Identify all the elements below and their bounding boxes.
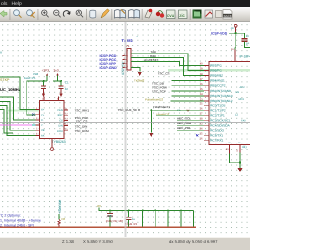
svg-text:+Sense: +Sense bbox=[57, 199, 62, 214]
U2 pin names left bbox=[41, 109, 45, 138]
svg-text:24: 24 bbox=[200, 128, 203, 131]
svg-text:TYB0263: TYB0263 bbox=[52, 140, 66, 144]
resistor R sense bbox=[58, 220, 60, 228]
wire W3 to U2 pin5 bbox=[0, 101, 36, 130]
pink wire to U2 pin4 bbox=[0, 124, 32, 126]
blue mark on U2 pin2 wire bbox=[32, 114, 34, 116]
cursor crosshair vertical overlay bbox=[124, 22, 126, 237]
svg-text:1uuF P5: 1uuF P5 bbox=[24, 76, 36, 80]
capacitor CL bbox=[107, 214, 113, 216]
capacitor C13 bbox=[242, 39, 248, 42]
svg-text:RC1/T1/P2: RC1/T1/P2 bbox=[210, 108, 226, 112]
junction VSS bbox=[239, 162, 241, 164]
svg-text:MC2: MC2 bbox=[239, 98, 245, 101]
wire below C13 bbox=[245, 42, 251, 48]
svg-text:CS: CS bbox=[59, 119, 63, 122]
wire ADC_SCL bbox=[177, 119, 204, 121]
capacitor C11 bbox=[58, 86, 63, 94]
svg-text:UC_10MHz: UC_10MHz bbox=[0, 87, 21, 92]
junction bbox=[60, 80, 62, 82]
wire +Sense stub bbox=[58, 214, 60, 220]
no-connect mark RC6 bbox=[196, 134, 198, 136]
wire TSC_DB to RB3 bbox=[172, 85, 204, 87]
wire P1 TxD bbox=[131, 54, 204, 71]
junction dots bottom bbox=[109, 210, 182, 212]
svg-text:4n: 4n bbox=[65, 87, 69, 91]
svg-text:STKP: STKP bbox=[0, 78, 10, 82]
svg-text:DIN: DIN bbox=[58, 125, 63, 128]
P1 pin numbers bbox=[124, 53, 126, 68]
U1 pin numbers RB bbox=[200, 63, 203, 102]
ground VSS bbox=[238, 168, 243, 172]
U1 pin names RC bbox=[210, 103, 231, 142]
C2 stubs bbox=[128, 210, 130, 226]
wire VSS gnd net bbox=[230, 153, 241, 169]
svg-text:BACK: BACK bbox=[224, 14, 232, 18]
wire TSC_SCP to RB1 bbox=[172, 95, 204, 97]
U2 pin names right bbox=[57, 109, 63, 133]
svg-text:FA0: FA0 bbox=[241, 119, 246, 122]
svg-text:33: 33 bbox=[200, 98, 203, 101]
svg-text:PulseIbumD2: PulseIbumD2 bbox=[145, 97, 163, 101]
U1 pin names RB bbox=[210, 63, 232, 103]
svg-text:M1: M1 bbox=[236, 91, 240, 94]
connector P1 body bbox=[127, 49, 131, 71]
CL stubs bbox=[109, 210, 111, 226]
wire RC2 row bbox=[156, 114, 204, 116]
svg-text:250R OR 180: 250R OR 180 bbox=[106, 219, 124, 223]
svg-text:26: 26 bbox=[200, 138, 203, 141]
wire ADC_SDA bbox=[177, 124, 204, 126]
U1 left pin stubs RB bbox=[204, 65, 209, 101]
svg-text:RB5/KB2: RB5/KB2 bbox=[210, 74, 223, 78]
U1 VDD top pin bbox=[231, 48, 235, 61]
U2 pin numbers bbox=[36, 98, 68, 136]
wire P1 gnd bbox=[131, 68, 140, 72]
junction RC1 bbox=[150, 109, 152, 111]
svg-text:RC5/SDO: RC5/SDO bbox=[210, 128, 224, 132]
junction bbox=[43, 80, 45, 82]
svg-text:X 5.850 Y 3.050: X 5.850 Y 3.050 bbox=[83, 239, 114, 244]
svg-text:C1: C1 bbox=[65, 81, 69, 85]
svg-text:HeaterD2: HeaterD2 bbox=[156, 112, 169, 116]
U1 right area pin name fragments bbox=[235, 86, 246, 122]
power symbol VDD bbox=[234, 24, 237, 33]
svg-text:16: 16 bbox=[200, 108, 203, 111]
ground arrow under C10 bbox=[42, 94, 46, 97]
svg-text:15: 15 bbox=[200, 103, 203, 106]
IC U2 TSC2046 body bbox=[40, 100, 64, 138]
svg-text:dx 5.850 dy 5.050 d 6.997: dx 5.850 dy 5.050 d 6.997 bbox=[169, 239, 218, 244]
svg-text:1u: 1u bbox=[132, 217, 136, 221]
U1 pin numbers RC bbox=[200, 103, 203, 141]
svg-text:BSY: BSY bbox=[58, 114, 63, 117]
wire ICSP-VDD net bbox=[229, 33, 245, 48]
svg-text:RB2/INT2/AN8: RB2/INT2/AN8 bbox=[210, 89, 231, 93]
svg-text:DOU: DOU bbox=[57, 130, 63, 133]
svg-text:RB7/PG: RB7/PG bbox=[210, 63, 222, 67]
svg-text:X-: X- bbox=[41, 119, 44, 122]
U2 left pin stubs bbox=[36, 110, 40, 136]
ground arrow under C11 bbox=[59, 94, 63, 97]
cursor crosshair vertical (under) bbox=[124, 22, 126, 237]
ground P1 bbox=[138, 72, 142, 76]
svg-text:17: 17 bbox=[200, 113, 203, 116]
svg-text:Y-: Y- bbox=[41, 124, 43, 127]
svg-text:ols Help: ols Help bbox=[1, 1, 22, 7]
no-connect mark pin4 bbox=[32, 124, 36, 126]
svg-text:ICSP-GND: ICSP-GND bbox=[100, 66, 118, 70]
svg-text:1n: 1n bbox=[246, 34, 250, 38]
svg-text:18: 18 bbox=[200, 118, 203, 121]
U2 bottom pin with open end bbox=[51, 139, 54, 151]
wire P1 uC-RESET bbox=[131, 61, 204, 65]
wire W5 bbox=[0, 110, 13, 133]
svg-text:25: 25 bbox=[200, 133, 203, 136]
svg-text:TSC_SCP: TSC_SCP bbox=[152, 90, 166, 94]
canvas background bbox=[0, 22, 250, 237]
svg-text:34: 34 bbox=[200, 93, 203, 96]
wire TSC_CS to RB4 bbox=[172, 80, 204, 82]
svg-text:TxD/PulseTx: TxD/PulseTx bbox=[153, 105, 171, 109]
svg-text:TSC_DOU: TSC_DOU bbox=[75, 129, 89, 133]
svg-text:RC4/SDI/SDA: RC4/SDI/SDA bbox=[210, 123, 230, 127]
U1 bottom pins VSS bbox=[230, 145, 241, 154]
svg-text:STUB /P2: STUB /P2 bbox=[125, 222, 138, 226]
svg-text:ʻC 2 Options:: ʻC 2 Options: bbox=[0, 214, 21, 218]
svg-text:41): 41) bbox=[242, 145, 247, 149]
svg-text:RB1/INT1/AN10: RB1/INT1/AN10 bbox=[210, 94, 232, 98]
svg-text:RB6/PG: RB6/PG bbox=[210, 68, 222, 72]
svg-text:40: 40 bbox=[200, 63, 203, 66]
svg-text:uC-RESET: uC-RESET bbox=[144, 58, 159, 62]
svg-text:PEN: PEN bbox=[57, 109, 62, 112]
svg-text:TSC_IRH1: TSC_IRH1 bbox=[75, 108, 90, 112]
svg-text:+3P3: +3P3 bbox=[42, 69, 50, 73]
svg-text:1P: 1P bbox=[246, 42, 250, 46]
wire W4 to U2 pin6 bbox=[0, 106, 36, 136]
capacitor C10 bbox=[41, 86, 46, 94]
wire ADC_PB1 bbox=[177, 129, 204, 131]
svg-text:RC3/SCK/SCL: RC3/SCK/SCL bbox=[210, 118, 231, 122]
svg-text:AC2: AC2 bbox=[240, 86, 246, 89]
wire bottom bus bbox=[99, 208, 193, 211]
junction ICSP-VDD bbox=[235, 32, 237, 34]
svg-text:TSC_DUX_SE R: TSC_DUX_SE R bbox=[118, 108, 142, 112]
wire P1 RxD bbox=[131, 58, 204, 76]
toolbar bbox=[0, 7, 250, 22]
power +3V3 right bbox=[54, 69, 59, 76]
svg-text:C⁋L: C⁋L bbox=[108, 214, 114, 218]
svg-text:ADC_PB1: ADC_PB1 bbox=[177, 126, 191, 130]
svg-text:ICSP-VDD: ICSP-VDD bbox=[211, 32, 228, 36]
comment text block bbox=[0, 214, 41, 228]
svg-text:X+: X+ bbox=[41, 109, 45, 112]
svg-text:3v3: 3v3 bbox=[54, 69, 59, 73]
net highlight band row RB6 bbox=[168, 69, 250, 71]
wire power to caps bbox=[27, 76, 61, 115]
cursor crosshair horizontal overlay bbox=[0, 122, 250, 123]
svg-text:36: 36 bbox=[200, 83, 203, 86]
U2 right pin stubs bbox=[64, 110, 68, 131]
svg-text:VB: VB bbox=[41, 129, 45, 132]
svg-text:39: 39 bbox=[200, 68, 203, 71]
menu bar bbox=[0, 0, 250, 7]
capacitor C2 bbox=[126, 217, 132, 219]
svg-text:35: 35 bbox=[200, 88, 203, 91]
power +3V3 left bbox=[42, 69, 50, 76]
svg-text:cvu: cvu bbox=[167, 13, 175, 18]
net highlight band U2 pin1 bbox=[8, 109, 39, 111]
svg-text:TxStat2: TxStat2 bbox=[134, 78, 145, 82]
svg-text:AX: AX bbox=[41, 134, 45, 137]
svg-text:RC6/TX1: RC6/TX1 bbox=[210, 133, 223, 137]
svg-text:Z 1.38: Z 1.38 bbox=[62, 239, 75, 244]
wire PulseIbumD2 to RB0 bbox=[171, 100, 204, 102]
wire to VDD pin bbox=[234, 48, 237, 50]
svg-text:IP-18F455: IP-18F455 bbox=[240, 55, 251, 59]
status bar bbox=[0, 237, 250, 250]
svg-text:TSC_CS: TSC_CS bbox=[158, 72, 170, 76]
gnd rail brown line bbox=[0, 227, 196, 228]
svg-text:RC7/RX1: RC7/RX1 bbox=[210, 138, 223, 142]
svg-text:Tx M1: Tx M1 bbox=[122, 38, 134, 43]
wire down to ground bbox=[150, 110, 152, 132]
svg-text:RC2/T1P1: RC2/T1P1 bbox=[210, 113, 225, 117]
svg-text:1. Internal 40dB - +Sense: 1. Internal 40dB - +Sense bbox=[0, 219, 41, 223]
svg-text:38: 38 bbox=[200, 73, 203, 76]
svg-text:Y+: Y+ bbox=[41, 114, 45, 117]
svg-text:RB3/CCP2: RB3/CCP2 bbox=[210, 84, 225, 88]
P1 pin stubs left bbox=[123, 56, 128, 68]
ground under junction bbox=[149, 133, 153, 137]
vertical drops to gnd rail bbox=[143, 210, 194, 226]
svg-text:37: 37 bbox=[200, 78, 203, 81]
svg-text:n: n bbox=[0, 51, 2, 55]
svg-text:zic: zic bbox=[179, 13, 185, 18]
wire W2 to U2 pin3 bbox=[0, 97, 36, 120]
wire RC1 row bbox=[151, 109, 204, 111]
IC U1 PIC body bbox=[209, 61, 254, 144]
svg-text:RB4/AN11: RB4/AN11 bbox=[210, 79, 225, 83]
wire W1 to U2 pin1 bbox=[0, 77, 36, 110]
U1 left pin stubs RC bbox=[204, 105, 209, 140]
U2 top pins bbox=[44, 97, 59, 101]
svg-text:RC0/T1OS: RC0/T1OS bbox=[210, 103, 225, 107]
wire TSC_POW to RB2 bbox=[172, 90, 204, 92]
